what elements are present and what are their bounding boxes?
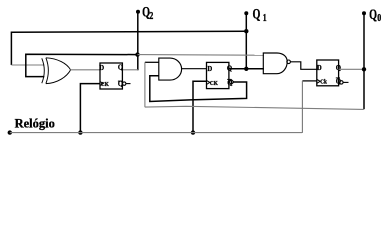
junction clock at FF2 riser bbox=[191, 130, 195, 134]
svg-text:Q: Q bbox=[336, 64, 342, 72]
node Q1 terminal dot bbox=[244, 11, 248, 15]
svg-text:Relógio: Relógio bbox=[15, 117, 55, 131]
svg-text:Q: Q bbox=[253, 6, 261, 22]
wire FF2 Q output to NAND bottom input bbox=[229, 68, 264, 70]
flip-flop U2 Qbar diamond bubble bbox=[229, 80, 234, 85]
wire FF1 Qbar stub bbox=[126, 83, 131, 85]
wire clock to FF2 CK bbox=[193, 81, 207, 132]
wire NAND output to FF3 D bbox=[290, 62, 316, 70]
wire FF1 Q output to Q2 vertical bbox=[123, 69, 139, 71]
wire gray net Q2 to NAND top input bbox=[138, 54, 264, 57]
nand-gate G3 bbox=[263, 53, 287, 74]
node Q2 label bbox=[142, 4, 154, 22]
svg-text:0: 0 bbox=[377, 13, 381, 24]
junction FF3 Q at Q0 vertical bbox=[362, 67, 366, 71]
wire Q2 vertical (FF1 Q up to Q2 terminal) bbox=[137, 12, 139, 71]
node Q2 terminal dot bbox=[136, 10, 140, 14]
wire clock riser to FF3 vertical bbox=[301, 81, 303, 133]
flip-flop U1 pin label Qbar bbox=[118, 80, 124, 88]
wire inner feedback from Q2 junction to XOR bottom input bbox=[26, 54, 138, 76]
wire clock rail bbox=[10, 132, 302, 134]
svg-text:2: 2 bbox=[149, 11, 153, 22]
svg-text:Q: Q bbox=[118, 63, 124, 71]
junction clock at FF1 riser bbox=[78, 130, 82, 134]
svg-text:D: D bbox=[317, 64, 322, 72]
junction FF2 Q at Q1 vertical bbox=[244, 67, 248, 71]
wire XOR output to FF1 D bbox=[70, 69, 100, 71]
svg-text:CK: CK bbox=[101, 81, 109, 88]
flip-flop U3 box bbox=[317, 60, 339, 86]
flip-flop U1 Qbar bubble bbox=[123, 82, 126, 85]
node Q0 terminal dot bbox=[362, 11, 366, 15]
junction inner feedback at Q2 vertical bbox=[135, 52, 139, 56]
wire Q0 vertical (FF3 Q up to Q0 terminal, down to feedback corner) bbox=[363, 13, 365, 109]
node Q0 label bbox=[369, 6, 381, 24]
flip-flop U3 pin label Qbar bbox=[336, 77, 342, 85]
svg-text:D: D bbox=[99, 64, 104, 72]
wire AND output to FF2 D bbox=[182, 68, 207, 70]
wire Q1 vertical (FF2 Q up to Q1 terminal) bbox=[245, 13, 247, 69]
junction outer feedback at Q1 bbox=[244, 29, 248, 33]
svg-text:CK: CK bbox=[210, 80, 218, 87]
wire AND bottom input (from FF2 Qbar loop) bbox=[150, 76, 247, 102]
wire Q0 feedback down and sloped left to AND riser bbox=[145, 106, 364, 109]
flip-flop U1 clock triangle bbox=[100, 82, 103, 86]
flip-flop U3 clock triangle bbox=[317, 79, 320, 83]
svg-text:1: 1 bbox=[263, 13, 267, 24]
flip-flop U2 box bbox=[207, 62, 229, 88]
svg-text:Q: Q bbox=[369, 6, 377, 22]
wire outer feedback from Q1 to XOR top input bbox=[11, 31, 246, 65]
wire clock to FF3 CK bbox=[302, 80, 316, 82]
svg-text:Ck: Ck bbox=[320, 79, 327, 86]
node Q1 label bbox=[253, 6, 268, 25]
svg-text:D: D bbox=[207, 65, 212, 73]
wire AND top input (from Q0 gray feedback) bbox=[145, 61, 159, 63]
xor-gate G1 bbox=[42, 58, 71, 84]
wire XOR top input horizontal bbox=[11, 64, 44, 66]
wire FF3 Q output to Q0 vertical bbox=[339, 68, 364, 70]
flip-flop U2 clock triangle bbox=[207, 80, 210, 84]
flip-flop U2 pin label Qbar bbox=[227, 79, 233, 87]
wire AND top input riser bbox=[144, 62, 146, 107]
wire FF3 Qbar stub bbox=[343, 81, 348, 83]
wire clock to FF1 CK bbox=[80, 84, 100, 133]
and-gate G2 bbox=[159, 58, 182, 80]
nand-gate G3 output bubble bbox=[287, 60, 291, 64]
clock rail terminal dot bbox=[8, 130, 12, 134]
flip-flop U1 box bbox=[100, 63, 122, 89]
flip-flop U3 Qbar bubble bbox=[340, 81, 343, 84]
